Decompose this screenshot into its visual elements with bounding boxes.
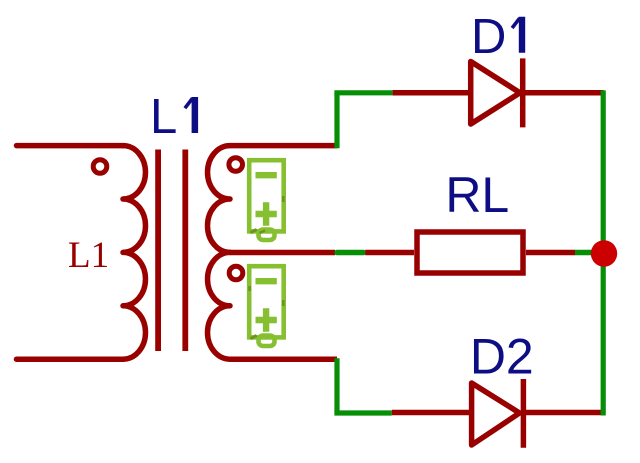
inductor secondary winding lower (208, 252, 230, 359)
polarity dot secondary lower (229, 266, 243, 280)
svg-text:D: D (471, 10, 506, 64)
wire: center tap lead (230, 250, 335, 256)
resistor RL body (417, 232, 523, 273)
transformer core bar 1 (155, 150, 161, 352)
wire: green horizontal top (334, 90, 392, 95)
wire: cathode D1 to right rail (523, 90, 604, 96)
wire: primary top lead (17, 143, 124, 149)
svg-text:RL: RL (445, 167, 509, 223)
wire: green segment before junction (575, 250, 598, 256)
wire: center tap to resistor (365, 250, 414, 256)
polarity dot primary (93, 160, 107, 174)
svg-text:D2: D2 (470, 329, 534, 385)
wire: resistor to junction (dark red) (526, 250, 575, 256)
wire: right rail green vertical (601, 90, 606, 415)
wire: green vertical bottom left (334, 358, 339, 413)
wire: anode lead D1 (393, 90, 470, 96)
wire: secondary top to corner (230, 143, 337, 149)
svg-text:L1: L1 (68, 235, 109, 276)
junction node (solder dot) (591, 240, 617, 266)
wire: cathode D2 to right rail (523, 410, 603, 416)
wire: center tap green segment (337, 250, 364, 256)
wire: green horizontal bottom (334, 410, 391, 415)
wire: green vertical top left (334, 93, 339, 148)
wire: anode lead D2 (392, 410, 470, 416)
battery marker B2 (lower secondary, yellow-green) (248, 266, 284, 346)
inductor L1 primary winding (123, 146, 146, 360)
wire: secondary bottom to corner (230, 356, 337, 362)
diode D1 cathode bar (520, 58, 526, 127)
wire: primary bottom lead (17, 356, 124, 362)
svg-text:L: L (150, 90, 177, 144)
diode D2 triangle (472, 383, 520, 445)
transformer core bar 2 (182, 150, 188, 352)
battery marker B1 (upper secondary, yellow-green) (249, 160, 284, 240)
polarity dot secondary upper (229, 158, 243, 172)
diode D2 cathode bar (521, 379, 527, 448)
diode D1 triangle (471, 62, 520, 125)
inductor secondary winding upper (208, 146, 231, 253)
